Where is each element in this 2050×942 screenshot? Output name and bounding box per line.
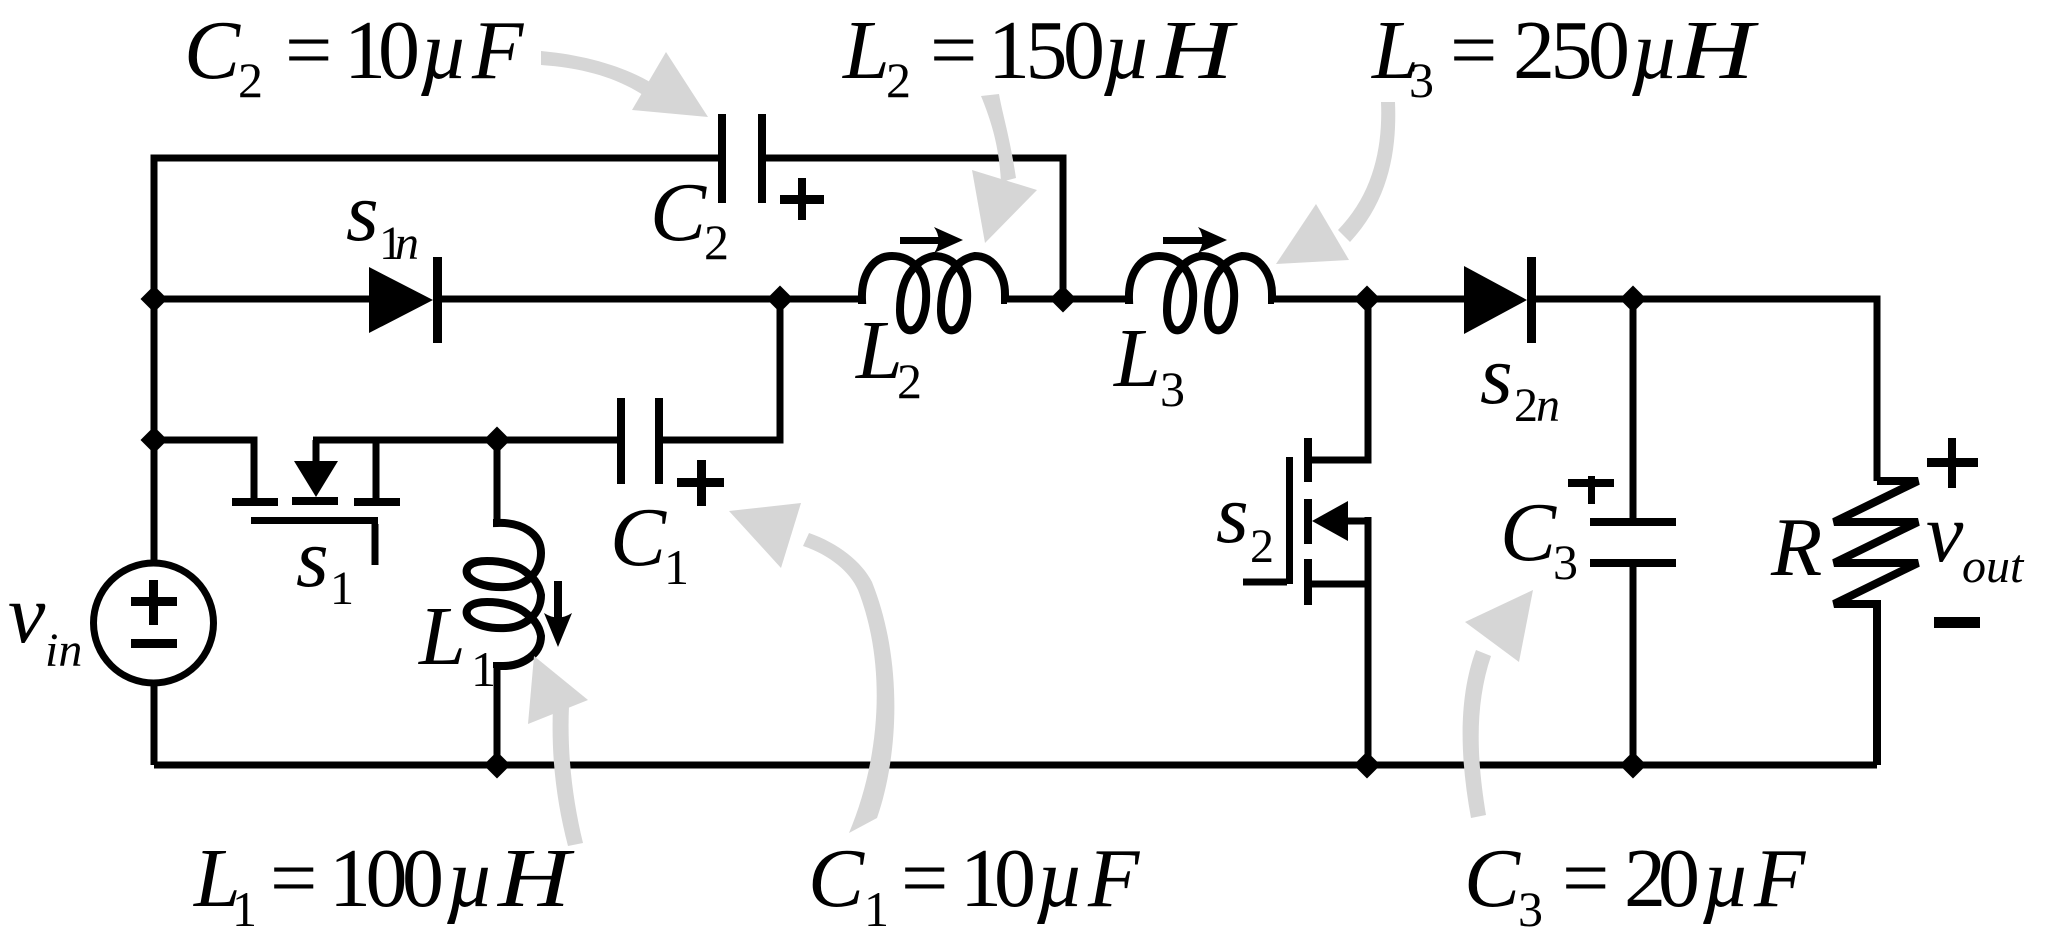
svg-text:H: H xyxy=(497,832,575,925)
capacitor C2 right plate xyxy=(758,114,766,203)
junction node L1 bottom xyxy=(484,752,511,779)
diode S1n triangle xyxy=(369,267,433,333)
svg-text:µ: µ xyxy=(1103,4,1151,97)
capacitor C3 top plate xyxy=(1590,518,1676,526)
svg-text:2: 2 xyxy=(897,353,922,409)
svg-text:v: v xyxy=(1926,487,1964,580)
svg-text:1: 1 xyxy=(330,562,354,615)
wire mid row: diode S1n to L2 xyxy=(441,296,860,303)
svg-text:=: = xyxy=(285,4,332,97)
svg-text:10: 10 xyxy=(344,4,420,97)
svg-text:F: F xyxy=(1087,832,1141,925)
MOSFET S1 middle lead xyxy=(313,440,320,462)
MOSFET S2 channel line xyxy=(1286,457,1293,584)
svg-text:s: s xyxy=(346,166,379,259)
svg-text:µ: µ xyxy=(1702,832,1750,925)
svg-text:250: 250 xyxy=(1513,4,1630,97)
svg-text:C: C xyxy=(650,166,707,259)
callout arrow C3 xyxy=(1463,650,1491,818)
svg-text:F: F xyxy=(471,4,525,97)
svg-text:L: L xyxy=(418,590,466,683)
MOSFET S1 left contact bar xyxy=(232,498,278,506)
svg-text:1: 1 xyxy=(864,881,889,937)
capacitor C1 right plate xyxy=(655,398,663,484)
svg-text:C: C xyxy=(1464,832,1521,925)
callout arrow L1 xyxy=(553,706,583,846)
wire mid row: L3 to diode S2n xyxy=(1272,296,1464,303)
svg-text:in: in xyxy=(45,624,82,677)
svg-text:v: v xyxy=(8,568,46,661)
junction node L1 top xyxy=(484,427,511,454)
diode S2n cathode bar xyxy=(1527,257,1536,343)
wire L1 top lead xyxy=(494,440,501,521)
current arrow above L3 xyxy=(1163,237,1215,244)
voltage source vin circle xyxy=(94,563,214,683)
callout arrow L2 xyxy=(981,94,1016,182)
MOSFET S2 bottom contact bar xyxy=(1304,559,1312,605)
svg-text:n: n xyxy=(1536,379,1560,432)
vout minus sign xyxy=(1934,617,1980,628)
junction node at left mid xyxy=(141,286,168,313)
MOSFET S2 top contact bar xyxy=(1304,438,1312,482)
svg-text:2: 2 xyxy=(704,214,729,270)
junction node at left C1 row xyxy=(141,427,168,454)
capacitor C1 left plate xyxy=(617,398,625,484)
junction node L2-L3 xyxy=(1050,286,1077,313)
wire C1 row: C1 right plate to corner up to mid row xyxy=(663,299,780,440)
C2 plus sign xyxy=(780,195,824,204)
junction node S2 drain xyxy=(1354,286,1381,313)
MOSFET S2 gate lead xyxy=(1243,579,1287,586)
svg-text:µ: µ xyxy=(1631,4,1679,97)
svg-text:C: C xyxy=(184,4,241,97)
inductor L2 xyxy=(858,256,1007,330)
wire C1 row: left junction to S1 drain corner xyxy=(154,440,254,498)
diode S1n cathode bar xyxy=(433,257,442,343)
svg-text:µ: µ xyxy=(420,4,468,97)
wire S2 body-diode anode xyxy=(1348,518,1368,525)
MOSFET S1 middle contact bar xyxy=(292,497,338,505)
MOSFET S1 gate lead xyxy=(372,524,379,565)
C3 plus sign xyxy=(1568,479,1614,487)
wire S2 source column to bottom xyxy=(1365,517,1372,765)
svg-text:L: L xyxy=(842,4,890,97)
current arrow beside L1 xyxy=(554,581,562,628)
junction node S2 source bottom xyxy=(1354,752,1381,779)
svg-text:10: 10 xyxy=(960,832,1036,925)
MOSFET S1 right lead xyxy=(373,440,380,499)
svg-text:s: s xyxy=(1216,468,1249,561)
svg-text:n: n xyxy=(395,217,419,270)
wire C3 bottom lead xyxy=(1630,567,1637,765)
svg-text:100: 100 xyxy=(329,832,444,925)
svg-text:1: 1 xyxy=(471,641,496,697)
svg-text:150: 150 xyxy=(988,4,1105,97)
svg-text:2: 2 xyxy=(1514,379,1538,432)
wire L1 bottom lead xyxy=(494,666,501,765)
svg-text:C: C xyxy=(1500,486,1557,579)
MOSFET S1 channel line xyxy=(251,517,378,524)
wire C1 row: S1 to C1 left plate xyxy=(313,437,617,444)
svg-text:H: H xyxy=(1677,4,1760,97)
MOSFET S1 body diode triangle xyxy=(294,461,338,497)
wire bottom row xyxy=(154,762,1877,769)
vin plus sign xyxy=(131,597,177,606)
current arrow above L2 xyxy=(900,237,950,244)
wire left column below source xyxy=(151,683,158,765)
svg-text:s: s xyxy=(296,512,329,605)
MOSFET S2 middle contact bar xyxy=(1304,499,1312,544)
svg-text:1: 1 xyxy=(664,539,689,595)
MOSFET S1 right contact bar xyxy=(354,498,400,506)
wire mid row: S2n to right corner, R branch down xyxy=(1535,299,1877,481)
svg-text:µ: µ xyxy=(446,832,494,925)
svg-text:F: F xyxy=(1753,832,1807,925)
svg-text:20: 20 xyxy=(1624,832,1700,925)
vin minus sign xyxy=(131,639,177,648)
svg-text:3: 3 xyxy=(1553,534,1578,590)
svg-text:=: = xyxy=(1450,4,1497,97)
wire C3 top lead xyxy=(1630,299,1637,518)
wire S2 drain lead xyxy=(1308,299,1368,460)
inductor L1 xyxy=(467,519,541,668)
svg-text:L: L xyxy=(1113,312,1161,405)
svg-text:s: s xyxy=(1480,329,1513,422)
capacitor C3 bottom plate xyxy=(1590,559,1676,567)
svg-text:2: 2 xyxy=(238,52,263,108)
svg-text:2: 2 xyxy=(1250,520,1274,573)
diode S2n triangle xyxy=(1464,266,1527,334)
wire top row right segment with corner down to mid row xyxy=(766,158,1063,299)
junction node C3 top xyxy=(1620,286,1647,313)
junction node C1/mid riser xyxy=(767,286,794,313)
capacitor C2 left plate xyxy=(718,114,726,203)
svg-text:3: 3 xyxy=(1518,881,1543,937)
svg-text:C: C xyxy=(610,491,667,584)
svg-text:=: = xyxy=(930,4,977,97)
svg-text:1: 1 xyxy=(232,881,257,937)
C1 plus sign xyxy=(677,478,724,487)
svg-text:out: out xyxy=(1962,540,2025,593)
wire top row left segment xyxy=(154,158,718,563)
svg-text:3: 3 xyxy=(1409,52,1434,108)
junction node C3 bottom xyxy=(1620,752,1647,779)
wire S2 source jog xyxy=(1308,581,1368,588)
callout arrow C1 xyxy=(803,533,894,833)
svg-text:µ: µ xyxy=(1036,832,1084,925)
MOSFET S2 body diode triangle xyxy=(1312,501,1348,541)
svg-text:3: 3 xyxy=(1160,361,1185,417)
wire mid row: source to diode S1n xyxy=(154,296,369,303)
resistor R zigzag xyxy=(1834,481,1918,765)
svg-text:2: 2 xyxy=(886,52,911,108)
svg-text:R: R xyxy=(1770,501,1822,594)
svg-text:H: H xyxy=(1156,4,1239,97)
wire mid row: L2 to L3 xyxy=(1005,296,1127,303)
callout arrow L3 xyxy=(1338,102,1395,242)
svg-text:=: = xyxy=(901,832,948,925)
svg-text:C: C xyxy=(808,832,865,925)
vout plus sign xyxy=(1927,458,1978,467)
svg-text:L: L xyxy=(855,304,903,397)
svg-text:=: = xyxy=(270,832,317,925)
svg-text:=: = xyxy=(1562,832,1609,925)
inductor L3 xyxy=(1125,256,1274,330)
callout arrow C2 xyxy=(541,51,650,95)
